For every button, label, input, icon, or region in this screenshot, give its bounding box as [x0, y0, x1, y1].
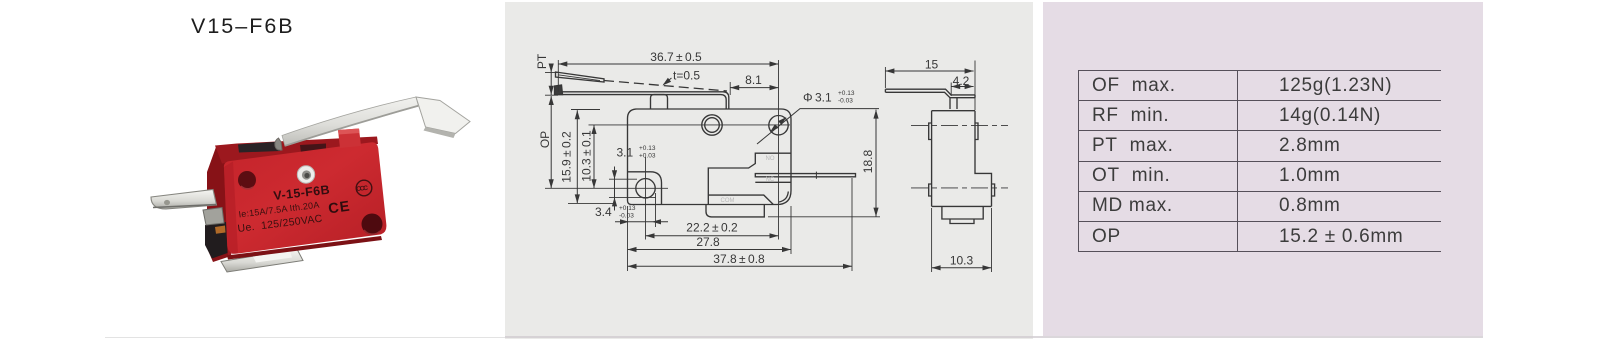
side view body outline — [932, 111, 992, 207]
svg-text:37.8 ± 0.8: 37.8 ± 0.8 — [713, 252, 765, 266]
arrowheads 15 side — [885, 68, 894, 73]
22.2 dimension line — [646, 235, 779, 237]
svg-text:t=0.5: t=0.5 — [673, 68, 700, 82]
red plunger button — [338, 129, 361, 149]
PT dimension line — [550, 64, 552, 96]
10.3 dimension line — [593, 125, 595, 188]
svg-text:18.8: 18.8 — [861, 149, 875, 173]
svg-text:+0.13: +0.13 — [838, 90, 855, 97]
svg-text:COM: COM — [721, 198, 735, 204]
37.8 dimension line + right extension — [628, 265, 853, 267]
svg-text:Φ 3.1: Φ 3.1 — [803, 91, 832, 105]
arrowheads 37.8 — [628, 264, 637, 269]
svg-text:OP: OP — [538, 131, 552, 148]
front face top-left mounting hole — [238, 171, 256, 189]
front face left edge shading — [224, 162, 238, 256]
svg-text:NO: NO — [766, 156, 775, 162]
lower left terminal — [203, 208, 224, 226]
pink spec panel background — [1043, 2, 1483, 336]
svg-text:36.7 ± 0.5: 36.7 ± 0.5 — [650, 50, 702, 64]
lever plate (top, double line with right hook) — [557, 92, 729, 109]
plunger button bump — [651, 95, 668, 109]
internal mechanism NO plate — [708, 153, 791, 204]
arrowhead t=0.5 leader — [663, 78, 672, 86]
svg-text:NC: NC — [766, 177, 775, 183]
lever arm — [282, 97, 419, 146]
front view body outline — [628, 109, 792, 205]
svg-text:15.9 ± 0.2: 15.9 ± 0.2 — [560, 131, 574, 183]
front face bottom-right hole — [362, 214, 383, 235]
18.8 dimension line + bottom extension — [875, 110, 877, 217]
side view lower hole bosses — [929, 184, 932, 196]
svg-text:+0.13: +0.13 — [639, 145, 656, 152]
spec table — [1078, 70, 1441, 252]
3.1 hole dim: tangent extension lines — [609, 178, 637, 180]
product title V15-F6B — [191, 14, 295, 39]
lever hinge block — [555, 85, 563, 95]
10.3 dimension line + extensions — [932, 267, 992, 269]
internal mechanism NC plate — [755, 174, 791, 177]
arrowheads phi leader — [778, 117, 786, 125]
lever in free position (solid wedge) — [556, 72, 605, 82]
3.4 dimension line — [615, 221, 668, 223]
inner corner line bottom-right — [779, 192, 788, 203]
arrowheads 3.4 — [620, 219, 629, 224]
metal rivet — [297, 166, 315, 184]
switch black base — [205, 222, 228, 259]
CCC logo — [356, 180, 372, 196]
side view upper hole bosses — [929, 123, 932, 140]
svg-text:CE: CE — [327, 199, 351, 218]
lever tip bend — [418, 106, 443, 128]
side view centerline upper hole — [911, 124, 1008, 126]
27.8 dimension line + extensions — [628, 249, 792, 251]
svg-text:15: 15 — [925, 58, 939, 72]
side view lever (edge-on) — [885, 89, 975, 95]
svg-text:3.1: 3.1 — [617, 146, 634, 160]
arrowheads 10.3 side — [932, 265, 941, 270]
15.9 dimension line — [576, 110, 578, 203]
arrowheads 18.8 — [873, 110, 878, 119]
top face slot 1 — [238, 142, 280, 153]
upper left blade terminal — [151, 190, 217, 210]
svg-text:3.4: 3.4 — [595, 205, 612, 219]
switch top face wedge — [215, 137, 378, 164]
gray drawing panel background — [505, 2, 1033, 339]
arrowheads 15.9 — [575, 110, 580, 119]
side view plunger stem — [949, 98, 951, 109]
arrowheads 3.1 — [612, 170, 617, 179]
arrowheads 10.3 — [591, 125, 596, 134]
bottom-left hole — [636, 179, 655, 198]
15 dimension line + extensions — [885, 70, 973, 72]
extension line x=558 (36.7 left) — [557, 60, 559, 92]
phi 3.1 leader diagonal + underline — [757, 109, 879, 144]
switch bottom dark edge — [227, 236, 382, 260]
lever pivot hook — [275, 138, 282, 150]
center line through top holes — [589, 124, 791, 126]
product photo: V15-F6B micro switch — [151, 97, 470, 272]
36.7 dimension line — [558, 63, 778, 65]
arrowheads 8.1 — [730, 85, 739, 90]
svg-text:-0.03: -0.03 — [838, 98, 853, 105]
bottom-left hole boss — [628, 172, 662, 205]
side view terminal block — [942, 206, 983, 219]
arrowheads 27.8 — [628, 247, 637, 252]
arrowheads 22.2 — [646, 233, 655, 238]
arrowheads PT — [549, 64, 554, 73]
NC terminal (right side) — [791, 174, 856, 177]
lever pressed position (dashed) — [604, 81, 727, 92]
switch left side face — [207, 147, 231, 262]
arrowheads OP — [549, 96, 554, 105]
center line bottom hole (vert) — [645, 157, 647, 240]
svg-text:+0.13: +0.13 — [619, 205, 636, 212]
switch front face — [224, 142, 387, 253]
svg-text:10.3: 10.3 — [950, 254, 974, 268]
lever tip paddle — [416, 97, 470, 134]
extension line x=778.5 (hole axis / 36.7 / 22.2) — [778, 60, 780, 240]
svg-text:PT: PT — [535, 53, 549, 69]
internal mechanism COM contour — [708, 195, 773, 204]
top face slot 2 — [300, 144, 326, 154]
bottom terminal tab — [221, 249, 303, 272]
svg-text:+0.03: +0.03 — [639, 153, 656, 160]
svg-text:10.3 ± 0.1: 10.3 ± 0.1 — [580, 130, 594, 182]
svg-text:22.2 ± 0.2: 22.2 ± 0.2 — [686, 221, 738, 235]
top-left mounting hole (double ring) — [702, 115, 722, 135]
4.2 dimension line + extension — [951, 86, 973, 88]
COM terminal tab (bottom) — [706, 205, 764, 217]
OP dimension line — [550, 96, 552, 188]
center line through bottom hole (horiz) — [545, 187, 668, 189]
top-right hole — [769, 116, 788, 135]
t=0.5 leader — [664, 78, 672, 85]
svg-text:-0.03: -0.03 — [619, 213, 634, 220]
arrowheads 4.2 — [951, 84, 960, 89]
arrowheads 36.7 — [558, 61, 567, 66]
svg-text:8.1: 8.1 — [745, 73, 762, 87]
8.1 dimension line + left extension — [730, 87, 778, 89]
side view centerline lower hole — [911, 187, 1008, 189]
svg-text:27.8: 27.8 — [696, 235, 720, 249]
svg-text:4.2: 4.2 — [953, 74, 970, 88]
